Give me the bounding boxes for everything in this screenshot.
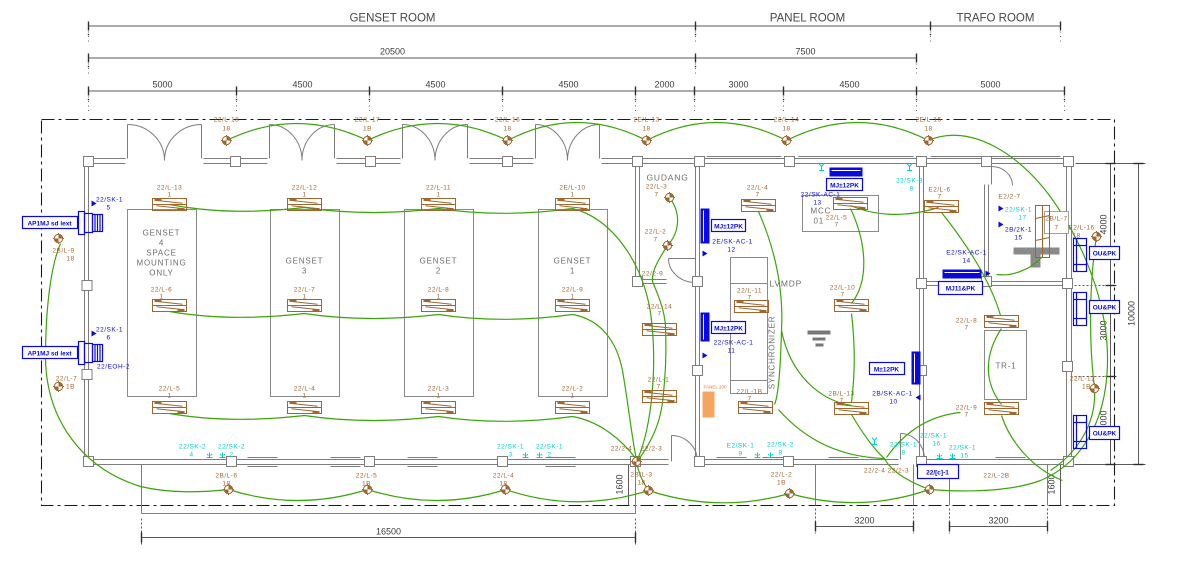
right dim line 4000/3000/3000: [1075, 164, 1146, 465]
light gudang 22/L-2: [662, 240, 673, 251]
svg-text:8: 8: [909, 186, 913, 193]
svg-text:E2/SK-AC-1: E2/SK-AC-1: [946, 250, 986, 257]
wire genset top fixture row: [170, 205, 573, 214]
svg-text:22/L-5: 22/L-5: [826, 215, 847, 222]
svg-text:2B/L-9: 2B/L-9: [52, 248, 74, 255]
svg-text:2E/L-13: 2E/L-13: [633, 117, 659, 124]
svg-text:22/L-16: 22/L-16: [495, 117, 521, 124]
svg-text:22/2-9: 22/2-9: [642, 271, 663, 278]
fixture 22/L-8: [422, 300, 456, 312]
svg-text:22/SK-1: 22/SK-1: [96, 197, 123, 204]
wire panel converge d: [885, 459, 930, 490]
svg-text:22/L-2: 22/L-2: [562, 386, 583, 393]
right side panel 2: [1074, 293, 1087, 326]
svg-text:OU&PK: OU&PK: [1093, 431, 1117, 438]
fixture 22/L-1: [643, 391, 677, 403]
svg-text:17: 17: [1018, 215, 1026, 222]
svg-text:7: 7: [656, 384, 660, 391]
svg-text:2: 2: [547, 452, 551, 459]
svg-text:7: 7: [657, 311, 661, 318]
fixture 22/L-9 trafo: [985, 403, 1019, 415]
bottom dim 16500: [142, 519, 636, 546]
bottom dim 1600 left: [628, 465, 630, 506]
light E2/L-16 right: [1091, 231, 1102, 242]
svg-text:4500: 4500: [558, 80, 578, 90]
wire panel converge c: [942, 213, 1001, 316]
svg-text:1B: 1B: [777, 480, 786, 487]
wall panel A label: [712, 220, 746, 232]
svg-text:22/L-1: 22/L-1: [648, 377, 669, 384]
svg-text:22/2-3: 22/2-3: [641, 446, 662, 453]
svg-text:4000: 4000: [1099, 214, 1109, 234]
wire panel L10 to L13: [852, 314, 885, 459]
svg-text:22/L-8: 22/L-8: [956, 318, 977, 325]
light 22/L-12 right: [1089, 383, 1100, 394]
dim row1 line: [89, 25, 1061, 27]
svg-text:1: 1: [302, 393, 306, 400]
svg-text:22/L-17: 22/L-17: [355, 117, 381, 124]
wire mcc drop: [851, 209, 864, 304]
apron 3200 left: [816, 465, 914, 506]
svg-text:22/L-11: 22/L-11: [426, 185, 451, 192]
svg-text:22/L-12: 22/L-12: [1070, 376, 1096, 383]
dim extension dotted lines: [89, 32, 1065, 115]
svg-text:GENSET: GENSET: [143, 229, 181, 238]
exhaust fan label box 1: [23, 217, 78, 229]
wire genset bottom fixture row: [170, 414, 637, 460]
svg-text:GENSET: GENSET: [420, 257, 458, 266]
svg-text:22/L-2: 22/L-2: [771, 472, 792, 479]
svg-text:7: 7: [653, 237, 657, 244]
right side panel 1: [1074, 239, 1087, 272]
fixture 22/L-5 mcc: [834, 198, 868, 210]
svg-text:1: 1: [436, 192, 440, 199]
svg-text:1: 1: [302, 294, 306, 301]
wire genset1 mid drop: [573, 315, 637, 460]
right side panel 3: [1074, 416, 1087, 449]
genset 2 block: [405, 210, 474, 397]
svg-text:1: 1: [302, 192, 306, 199]
svg-text:7500: 7500: [795, 47, 815, 57]
svg-text:1: 1: [436, 393, 440, 400]
LVMDP equipment row: [731, 258, 768, 394]
fixture E2/L-6 panel: [925, 201, 959, 213]
wire left arc: [46, 244, 229, 492]
fixture 22/L-6: [153, 300, 187, 312]
top wall segments: [85, 158, 126, 160]
wall window marks: [248, 157, 1061, 467]
svg-text:PANEL ROOM: PANEL ROOM: [770, 13, 845, 25]
exhaust fan label box 2: [23, 347, 78, 359]
light 22/L-2 bottom: [784, 488, 795, 499]
svg-text:E2/2-7: E2/2-7: [998, 194, 1020, 201]
svg-text:SYNCHRONIZER: SYNCHRONIZER: [768, 316, 777, 390]
svg-text:18: 18: [66, 256, 74, 263]
svg-text:22/L-11: 22/L-11: [737, 288, 762, 295]
panel-trafo divider wall: [919, 159, 921, 465]
wall panel A: [701, 209, 710, 244]
svg-text:7: 7: [834, 222, 838, 229]
top wall panel label: [827, 179, 863, 191]
svg-text:E2/SK-1: E2/SK-1: [727, 443, 755, 450]
svg-text:GENSET: GENSET: [286, 257, 324, 266]
svg-text:PANEL 20P: PANEL 20P: [704, 385, 728, 390]
svg-text:22/L-7: 22/L-7: [56, 376, 77, 383]
svg-text:8: 8: [778, 450, 782, 457]
svg-text:4: 4: [189, 452, 193, 459]
ground symbol: [808, 331, 831, 347]
light 2B/L-6 bottom: [223, 484, 234, 495]
top wall panel blue: [830, 168, 863, 177]
svg-text:22/L-2B: 22/L-2B: [983, 473, 1009, 480]
svg-text:18: 18: [642, 126, 650, 133]
svg-text:16: 16: [932, 441, 940, 448]
svg-text:GENSET: GENSET: [554, 257, 592, 266]
light 22/L-13 top: [641, 135, 652, 146]
light 22/L-15 top: [923, 135, 934, 146]
wire trafo right lights: [1051, 237, 1097, 471]
svg-text:MJ±12PK: MJ±12PK: [714, 224, 743, 231]
svg-text:MJ±12PK: MJ±12PK: [714, 326, 743, 333]
wire genset mid fixture row: [170, 312, 573, 320]
svg-text:3200: 3200: [854, 516, 874, 526]
svg-text:2E/L-10: 2E/L-10: [559, 185, 585, 192]
svg-text:TRAFO ROOM: TRAFO ROOM: [957, 13, 1035, 25]
svg-text:5: 5: [106, 205, 110, 212]
subroom vertical equipment: [1045, 212, 1069, 234]
svg-text:22/2-4: 22/2-4: [611, 446, 632, 453]
genset-panel divider wall: [695, 159, 697, 465]
svg-text:7: 7: [755, 192, 759, 199]
wall junction squares: [82, 157, 1074, 467]
svg-text:4500: 4500: [839, 80, 859, 90]
light gudang 22/L-3: [664, 192, 675, 203]
light junction: [631, 456, 642, 467]
svg-text:1B: 1B: [66, 384, 75, 391]
svg-text:2: 2: [229, 452, 233, 459]
svg-text:5000: 5000: [152, 80, 172, 90]
svg-text:1: 1: [436, 294, 440, 301]
svg-text:22/SK-AC-1: 22/SK-AC-1: [801, 192, 841, 199]
dim row3 line: [89, 90, 1065, 92]
svg-text:22/2-4 22/2-3: 22/2-4 22/2-3: [864, 468, 909, 475]
light 22/L-14 top: [781, 135, 792, 146]
svg-text:ONLY: ONLY: [149, 269, 173, 278]
svg-text:7: 7: [964, 412, 968, 419]
genset 3 block: [271, 210, 340, 397]
light 2B/L-3 bottom: [643, 485, 654, 496]
genset 2 text: [420, 257, 458, 276]
right mid panel label: [870, 363, 905, 375]
svg-text:7: 7: [839, 398, 843, 405]
svg-text:1: 1: [570, 192, 574, 199]
right mid panel: [912, 352, 921, 385]
svg-text:1: 1: [167, 192, 171, 199]
svg-text:AP1MJ sd lext: AP1MJ sd lext: [27, 221, 72, 228]
svg-text:1: 1: [167, 393, 171, 400]
svg-text:1B: 1B: [1082, 384, 1091, 391]
svg-text:12: 12: [727, 247, 735, 254]
svg-text:4500: 4500: [425, 80, 445, 90]
svg-text:22/L-1B: 22/L-1B: [736, 389, 762, 396]
svg-text:LVMDP: LVMDP: [770, 279, 803, 289]
svg-text:22/L-9: 22/L-9: [562, 287, 583, 294]
svg-text:E2/L-16: E2/L-16: [1068, 225, 1094, 232]
fixture 22/L-9: [556, 300, 590, 312]
svg-text:3000: 3000: [728, 80, 748, 90]
fixture 22/L-4: [288, 402, 322, 414]
wire right sweep: [929, 135, 1108, 491]
fixture 2B/L-13: [835, 403, 869, 415]
svg-text:OU&PK: OU&PK: [1093, 251, 1117, 258]
bottom dim 3200 right: [950, 509, 1048, 534]
svg-text:10000: 10000: [1127, 301, 1137, 326]
svg-text:2B/L-7: 2B/L-7: [1045, 216, 1067, 223]
light 22/L-5 bottom: [362, 484, 373, 495]
svg-text:7: 7: [1054, 225, 1058, 232]
bottom blue box 22/c-1: [918, 465, 959, 479]
svg-text:1: 1: [570, 294, 574, 301]
svg-text:18: 18: [222, 126, 230, 133]
svg-text:22/L-5: 22/L-5: [159, 386, 180, 393]
genset 4 block: [128, 210, 197, 397]
svg-text:3: 3: [302, 267, 307, 276]
svg-text:22/L-4: 22/L-4: [747, 185, 768, 192]
light 22/L-17: [362, 135, 373, 146]
svg-text:14: 14: [962, 258, 970, 265]
gudang left wall: [635, 164, 637, 282]
light 22/L-18: [221, 135, 232, 146]
trafo strip label: [939, 282, 983, 295]
light 22/L-2B bottom: [924, 484, 935, 495]
svg-text:2E/SK-AC-1: 2E/SK-AC-1: [712, 239, 752, 246]
svg-text:22/EOH-2: 22/EOH-2: [97, 364, 130, 371]
genset 1 text: [554, 257, 592, 276]
genset 4 text: [137, 229, 187, 278]
fixture 22/L-8 trafo: [985, 316, 1019, 328]
svg-text:22/L-12: 22/L-12: [292, 185, 318, 192]
svg-text:2B/L-3: 2B/L-3: [630, 472, 652, 479]
svg-text:10: 10: [889, 399, 897, 406]
fixture 22/L-2: [556, 402, 590, 414]
svg-text:22/SK-1: 22/SK-1: [920, 433, 947, 440]
MCC box: [803, 196, 879, 232]
svg-text:1: 1: [159, 294, 163, 301]
svg-text:22/SK-1: 22/SK-1: [1005, 207, 1032, 214]
fixture 22/L-4 panel: [742, 200, 776, 212]
svg-text:22/L-18: 22/L-18: [214, 117, 240, 124]
wall panel B: [701, 313, 710, 342]
svg-text:22/SK-1: 22/SK-1: [96, 327, 123, 334]
svg-text:22/L-4: 22/L-4: [294, 386, 315, 393]
svg-text:22/SK-1: 22/SK-1: [536, 444, 563, 451]
svg-text:2E/L-15: 2E/L-15: [915, 117, 941, 124]
svg-text:15: 15: [960, 453, 968, 460]
light 2B/L-9 left: [53, 233, 64, 244]
svg-text:2B/2K-1: 2B/2K-1: [1005, 227, 1032, 234]
wire panel L4 drop: [759, 212, 782, 405]
fixture 22/L-14: [643, 324, 677, 336]
svg-text:22/SK-1: 22/SK-1: [890, 442, 917, 449]
wire panel converge b: [782, 331, 852, 406]
wire panel converge a: [779, 410, 885, 459]
svg-text:TR-1: TR-1: [996, 362, 1017, 371]
svg-text:9: 9: [738, 451, 742, 458]
wire subroom: [997, 257, 1043, 275]
svg-text:18: 18: [503, 126, 511, 133]
svg-text:18: 18: [222, 481, 230, 488]
dim row2 line: [89, 57, 917, 59]
bottom dim 1600 right: [1060, 465, 1062, 506]
light 22/L-4 bottom: [500, 484, 511, 495]
wire mcc to right fixture: [851, 206, 939, 215]
svg-text:22/[c]-1: 22/[c]-1: [926, 470, 949, 477]
svg-text:1B: 1B: [363, 126, 372, 133]
svg-text:22/L-8: 22/L-8: [428, 287, 449, 294]
trafo strip panel: [943, 270, 982, 279]
trafo room bottom door: [901, 434, 925, 460]
svg-text:7: 7: [654, 192, 658, 199]
light 22/L-7 left: [53, 381, 64, 392]
svg-text:4: 4: [159, 239, 164, 248]
fixture 22/L-3: [422, 402, 456, 414]
wire trafo fixtures: [988, 329, 1062, 481]
svg-text:7: 7: [964, 325, 968, 332]
fixture 22/L-12: [288, 199, 322, 211]
exhaust fan motor 1: [79, 212, 103, 235]
trafo subroom horizontal wall: [920, 281, 1072, 283]
svg-text:2: 2: [436, 267, 441, 276]
apron 3200 right: [950, 465, 1048, 506]
svg-text:18: 18: [782, 126, 790, 133]
svg-text:22/L-4: 22/L-4: [493, 473, 514, 480]
svg-text:MJ±12PK: MJ±12PK: [830, 183, 859, 190]
svg-text:22/SK-2: 22/SK-2: [218, 444, 245, 451]
gudang bottom wall: [636, 279, 667, 281]
svg-text:22/L-13: 22/L-13: [157, 185, 183, 192]
cyan Y markers top: [819, 164, 912, 171]
svg-text:2B/L-13: 2B/L-13: [828, 391, 854, 398]
svg-text:22/L-10: 22/L-10: [830, 285, 856, 292]
right wall: [1066, 159, 1068, 465]
svg-text:4500: 4500: [292, 80, 312, 90]
svg-text:15: 15: [1014, 235, 1022, 242]
svg-text:3: 3: [508, 452, 512, 459]
genset doors leaves and arcs: [128, 125, 600, 161]
svg-text:7: 7: [747, 295, 751, 302]
svg-text:M±12PK: M±12PK: [874, 367, 900, 374]
bottom wall segments: [85, 459, 669, 461]
svg-text:1: 1: [570, 393, 574, 400]
gudang door: [669, 259, 696, 283]
svg-text:6: 6: [106, 335, 110, 342]
apron below wall left: [142, 465, 636, 514]
fixture 22/L-11 lvmdp: [735, 301, 769, 313]
svg-text:18: 18: [499, 481, 507, 488]
svg-text:3200: 3200: [988, 516, 1008, 526]
svg-text:7: 7: [840, 292, 844, 299]
trafo subroom vertical wall: [984, 185, 986, 286]
outer dash-dot boundary: [42, 120, 1115, 506]
svg-text:5000: 5000: [980, 80, 1000, 90]
svg-text:22/SK-1: 22/SK-1: [497, 444, 524, 451]
svg-text:7: 7: [747, 396, 751, 403]
svg-text:2000: 2000: [654, 80, 674, 90]
svg-text:OU&PK: OU&PK: [1093, 305, 1117, 312]
svg-text:22/L-5: 22/L-5: [356, 473, 377, 480]
wire top ceiling run: [227, 123, 929, 141]
subroom door: [992, 167, 1013, 186]
svg-text:22/L-14: 22/L-14: [647, 304, 673, 311]
svg-text:22/L-2: 22/L-2: [645, 229, 666, 236]
svg-text:MJ11&PK: MJ11&PK: [946, 286, 976, 293]
wire gudang run: [639, 198, 678, 460]
fixture 22/L-7: [288, 300, 322, 312]
svg-text:22/SK-AC-1: 22/SK-AC-1: [714, 340, 754, 347]
svg-text:SPACE: SPACE: [146, 249, 177, 258]
svg-text:22/SK-2: 22/SK-2: [767, 442, 794, 449]
svg-text:18: 18: [637, 480, 645, 487]
svg-text:11: 11: [728, 348, 736, 355]
genset 1 block: [539, 210, 608, 397]
svg-text:22/L-14: 22/L-14: [774, 117, 800, 124]
svg-text:22/SK-1: 22/SK-1: [949, 445, 976, 452]
svg-text:13: 13: [813, 200, 821, 207]
fixture 22/L-13: [153, 199, 187, 211]
orange panel rect: [703, 392, 715, 418]
svg-text:E2/L-6: E2/L-6: [928, 187, 950, 194]
svg-text:22/SK-3: 22/SK-3: [896, 178, 923, 185]
svg-text:GENSET ROOM: GENSET ROOM: [349, 13, 435, 25]
dim tick dots: [88, 34, 1066, 101]
svg-text:22/L-9: 22/L-9: [956, 405, 977, 412]
svg-text:20500: 20500: [380, 47, 405, 57]
svg-text:22/L-7: 22/L-7: [294, 287, 315, 294]
panel room bottom door: [672, 436, 698, 462]
trafo table symbol: [1014, 248, 1060, 268]
svg-text:18: 18: [924, 126, 932, 133]
svg-text:1B: 1B: [362, 481, 371, 488]
svg-text:GUDANG: GUDANG: [647, 173, 689, 183]
wall panel B label: [712, 322, 746, 334]
left wall: [84, 159, 86, 465]
svg-text:1600: 1600: [615, 474, 625, 494]
fixture 22/L-11 top: [422, 199, 456, 211]
wire genset1 top drop: [573, 209, 654, 460]
svg-text:AP1MJ sd lext: AP1MJ sd lext: [27, 351, 72, 358]
fixture 22/L-10 top: [556, 199, 590, 211]
svg-text:7: 7: [937, 194, 941, 201]
fixture 22/L-10 panel: [835, 300, 869, 312]
svg-text:01: 01: [814, 217, 825, 226]
dim ticks rows: [89, 22, 1065, 96]
fixture 22/L-1B: [739, 402, 773, 414]
exhaust fan motor 2: [79, 342, 103, 365]
wire bottom scallop: [229, 490, 930, 503]
svg-text:MOUNTING: MOUNTING: [137, 259, 187, 268]
light 22/L-16: [502, 135, 513, 146]
svg-text:2B/SK-AC-1: 2B/SK-AC-1: [872, 391, 912, 398]
bottom dim 3200 left: [816, 509, 914, 534]
TR-1 box: [985, 331, 1027, 400]
svg-text:16500: 16500: [376, 527, 401, 537]
fixture 22/L-5: [153, 402, 187, 414]
svg-text:8: 8: [901, 450, 905, 457]
svg-text:1: 1: [570, 267, 575, 276]
svg-text:22/L-6: 22/L-6: [151, 287, 172, 294]
genset 3 text: [286, 257, 324, 276]
svg-text:22/L-3: 22/L-3: [646, 184, 667, 191]
